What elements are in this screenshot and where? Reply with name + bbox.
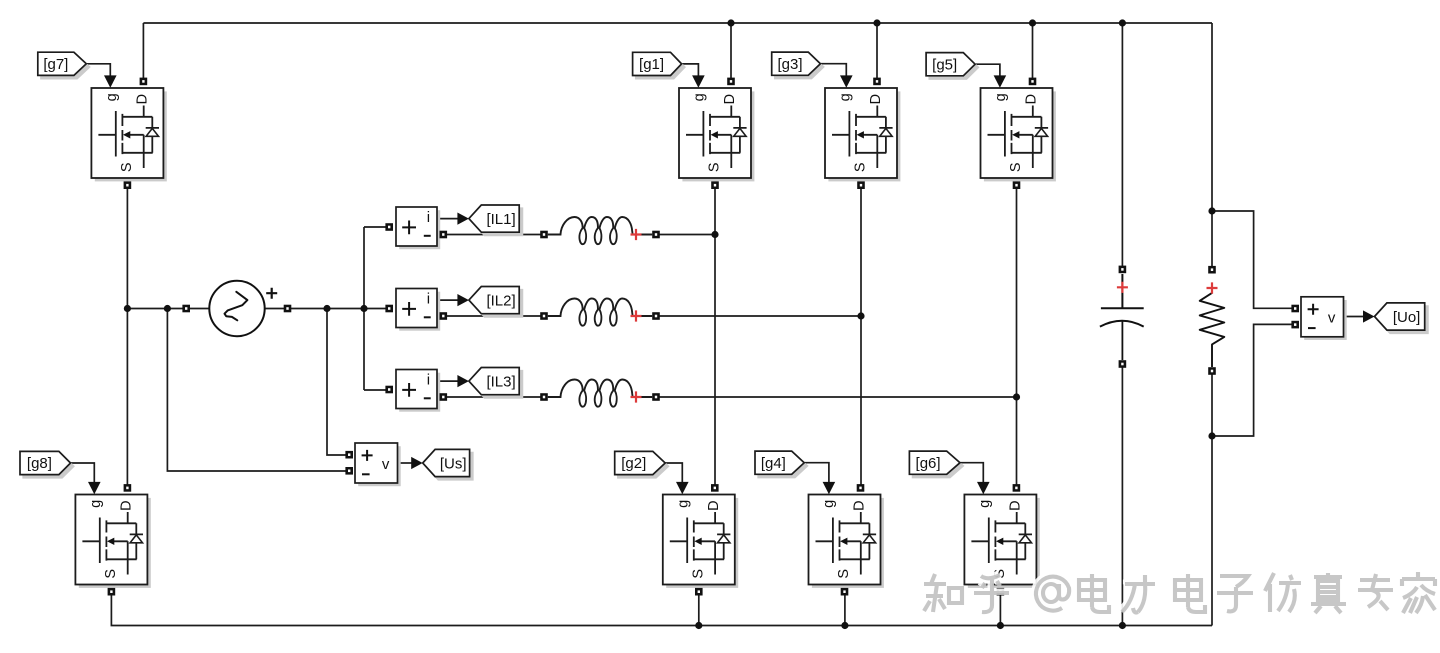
watermark glyph dian2 (1173, 572, 1205, 612)
From tag [g7] (38, 52, 90, 78)
Q4 (g4) source port S (841, 588, 849, 596)
watermark glyph zhuan (1356, 572, 1393, 610)
pin label - (424, 397, 431, 399)
node g4 source / bottom bus (841, 622, 848, 629)
gate wire g8 (71, 463, 95, 483)
node g2 source / bottom bus (695, 622, 702, 629)
Q5 (g5) source port S (1013, 181, 1021, 189)
svg-text:[g5]: [g5] (932, 56, 957, 73)
svg-text:S: S (690, 569, 706, 579)
IL2 + port (385, 305, 393, 313)
svg-text:[Us]: [Us] (440, 455, 467, 472)
svg-text:[g1]: [g1] (639, 56, 664, 73)
Q8 (g8) drain port D (124, 484, 132, 492)
pin label - (1308, 327, 1316, 329)
gate arrowhead g4 (823, 482, 836, 494)
wire resistor bottom feed (1211, 373, 1213, 626)
Q2 (g2) drain port D (711, 484, 719, 492)
svg-text:D: D (118, 500, 134, 510)
svg-text:[g3]: [g3] (777, 56, 802, 73)
MOSFET block Q1 (g1) (679, 88, 754, 181)
From tag [g3] (772, 52, 824, 78)
svg-text:[IL3]: [IL3] (486, 374, 515, 391)
MOSFET body arrow (857, 131, 864, 138)
gate wire g2 (665, 463, 682, 483)
wire top DC bus (143, 22, 1212, 24)
node g1 drain / top bus (727, 19, 734, 26)
gate wire g5 (975, 64, 1000, 76)
wire to Uo + input (1212, 211, 1293, 308)
From tag [g4] (755, 451, 807, 477)
node phase B (857, 312, 864, 319)
MOSFET symbol strokes (98, 106, 159, 169)
svg-text:D: D (868, 94, 884, 104)
watermark glyph dian (1077, 572, 1109, 612)
red polarity mark of L3 (631, 391, 642, 402)
IL3 - port (440, 393, 448, 401)
AC voltage source Vs (209, 281, 264, 336)
Uo - port (1291, 321, 1299, 329)
svg-text:g: g (977, 500, 993, 508)
L3 right port (652, 393, 660, 401)
MOSFET body arrow (694, 538, 701, 545)
pin label + (402, 383, 416, 397)
From tag [g5] (926, 53, 978, 79)
svg-text:v: v (1328, 310, 1336, 327)
watermark glyph li (1120, 573, 1155, 613)
arrowhead to IL3 tag (457, 375, 469, 387)
node Us+ branch (323, 305, 330, 312)
L1 right port (652, 231, 660, 239)
wire g2 source drop (698, 595, 700, 626)
MOSFET symbol strokes (816, 512, 877, 575)
gate arrowhead g6 (977, 482, 990, 494)
wire to Us - input (167, 309, 349, 472)
watermark glyph at (1034, 575, 1069, 611)
svg-text:S: S (1008, 162, 1024, 172)
MOSFET body arrow (1012, 131, 1019, 138)
IL1 - port (440, 231, 448, 239)
wire g6 source drop (999, 595, 1001, 626)
Voltage measurement block Us (355, 443, 401, 486)
MOSFET symbol strokes (971, 512, 1032, 575)
resistor bottom port (1208, 367, 1216, 375)
capacitor bottom port (1119, 360, 1127, 368)
AC source right port (284, 305, 292, 313)
wire g1 drain riser (730, 23, 732, 81)
node capacitor / top bus (1119, 19, 1126, 26)
svg-text:v: v (382, 456, 390, 473)
MOSFET block Q5 (g5) (981, 88, 1056, 181)
wire g5 drain riser (1032, 23, 1034, 81)
gate wire g4 (804, 463, 829, 483)
svg-text:S: S (707, 162, 723, 172)
svg-text:[IL2]: [IL2] (486, 293, 515, 310)
svg-text:g: g (88, 500, 104, 508)
wire g3 source to g4 drain (860, 188, 862, 485)
gate arrowhead g1 (692, 75, 705, 87)
capacitor top port (1119, 266, 1127, 274)
wire L2 to phase B node (656, 315, 861, 317)
MOSFET body arrow (996, 538, 1003, 545)
watermark glyph zhi (922, 572, 962, 612)
Q1 (g1) drain port D (727, 78, 735, 86)
svg-text:[g8]: [g8] (27, 455, 52, 472)
svg-text:D: D (1024, 94, 1040, 104)
L1 left port (540, 231, 548, 239)
Goto tag [Uo] (1375, 303, 1428, 333)
watermark glyph fang (1263, 571, 1301, 612)
MOSFET block Q4 (g4) (809, 495, 884, 588)
MOSFET symbol strokes (988, 106, 1049, 169)
IL3 + port (385, 386, 393, 394)
Goto tag [IL3] (469, 368, 523, 398)
node Us- branch (164, 305, 171, 312)
MOSFET symbol strokes (82, 512, 143, 575)
Q5 (g5) drain port D (1029, 78, 1037, 86)
wire AC source right lead (265, 308, 393, 310)
gate arrowhead g8 (88, 482, 101, 494)
Q4 (g4) drain port D (857, 484, 865, 492)
L2 left port (540, 312, 548, 320)
svg-text:[IL1]: [IL1] (486, 211, 515, 228)
wire phase trunk (363, 227, 365, 390)
svg-text:[Uo]: [Uo] (1393, 309, 1421, 326)
AC source + polarity label (266, 288, 277, 299)
wire to IL1 + input (364, 226, 392, 228)
body diode (863, 535, 875, 543)
Current measurement block IL1 (396, 207, 440, 249)
node g6 source / bottom bus (997, 622, 1004, 629)
pin label + (362, 450, 373, 461)
svg-text:i: i (427, 290, 430, 307)
Current measurement block IL3 (396, 370, 440, 412)
gate arrowhead g7 (104, 75, 117, 87)
wire L1 to phase A node (656, 234, 715, 236)
node resistor top / Uo+ (1208, 207, 1215, 214)
Uo + port (1291, 305, 1299, 313)
MOSFET block Q6 (g6) (964, 495, 1039, 588)
inductor L3 (548, 380, 652, 407)
gate arrowhead g5 (994, 75, 1007, 87)
Voltage measurement block Uo (1301, 297, 1347, 340)
wire to Us + input (327, 309, 349, 456)
MOSFET body arrow (840, 538, 847, 545)
AC source left port (182, 305, 190, 313)
wire capacitor bottom feed (1121, 367, 1123, 626)
wire bottom return bus (111, 595, 1212, 626)
MOSFET block Q8 (g8) (75, 495, 150, 588)
watermark glyph zhen (1309, 571, 1346, 613)
pin label + (1308, 304, 1319, 315)
From tag [g6] (909, 451, 963, 477)
gate wire g1 (682, 64, 699, 76)
arrowhead to IL1 tag (457, 213, 469, 225)
resistor top port (1208, 266, 1216, 274)
body diode (130, 535, 142, 543)
IL2 - port (440, 312, 448, 320)
svg-text:g: g (993, 93, 1009, 101)
watermark glyph jia (1400, 570, 1435, 613)
pin label + (402, 302, 416, 316)
svg-text:g: g (692, 93, 708, 101)
svg-text:g: g (821, 500, 837, 508)
wire to Uo - input (1212, 324, 1293, 436)
Current measurement block IL2 (396, 289, 440, 331)
Goto tag [Us] (423, 449, 473, 479)
signal wire i2 to IL2 tag (437, 299, 458, 301)
MOSFET body arrow (711, 131, 718, 138)
svg-text:[g2]: [g2] (621, 455, 646, 472)
IL1 + port (385, 223, 393, 231)
Goto tag [IL2] (469, 287, 523, 317)
Us + port (345, 451, 353, 459)
node AC left / half-bridge 4 (124, 305, 131, 312)
red polarity mark of L1 (631, 229, 642, 240)
svg-text:D: D (706, 500, 722, 510)
From tag [g1] (633, 52, 685, 78)
resistor R (load) (1200, 293, 1225, 367)
L3 left port (540, 393, 548, 401)
Q6 (g6) source port S (997, 588, 1005, 596)
wire L3 to phase C node (656, 396, 1017, 398)
signal wire to Uo tag (1344, 316, 1365, 318)
wire IL3 meas to inductor L3 (443, 396, 544, 398)
Q6 (g6) drain port D (1013, 484, 1021, 492)
From tag [g8] (20, 451, 74, 477)
wire resistor top feed (1211, 23, 1213, 266)
wire g3 drain riser (876, 23, 878, 81)
svg-text:g: g (675, 500, 691, 508)
signal wire i1 to IL1 tag (437, 218, 458, 220)
svg-text:i: i (427, 209, 430, 226)
wire g4 source drop (844, 595, 846, 626)
node phase A (711, 231, 718, 238)
MOSFET symbol strokes (686, 106, 747, 169)
red polarity mark of L2 (631, 310, 642, 321)
svg-text:S: S (836, 569, 852, 579)
svg-text:[g6]: [g6] (916, 455, 941, 472)
wire g7 source to g8 drain (126, 188, 128, 485)
svg-text:D: D (722, 94, 738, 104)
Q3 (g3) source port S (857, 181, 865, 189)
wire g1 source to g2 drain (714, 188, 716, 485)
Q7 (g7) source port S (124, 181, 132, 189)
signal wire to Us tag (398, 462, 413, 464)
svg-text:g: g (104, 93, 120, 101)
svg-text:g: g (838, 93, 854, 101)
arrowhead to IL2 tag (457, 294, 469, 306)
svg-text:S: S (103, 569, 119, 579)
L2 right port (652, 312, 660, 320)
pin label + (402, 221, 416, 235)
capacitor C (DC link) (1100, 274, 1144, 360)
red polarity mark of resistor (1207, 282, 1218, 293)
body diode (1019, 535, 1031, 543)
Q8 (g8) source port S (108, 588, 116, 596)
wire g5 source to g6 drain (1016, 188, 1018, 485)
MOSFET block Q2 (g2) (663, 495, 738, 588)
wire g7 drain riser (142, 23, 144, 81)
Us - port (345, 467, 353, 475)
wire capacitor top feed (1121, 23, 1123, 266)
pin label - (362, 473, 370, 475)
From tag [g2] (615, 451, 669, 477)
wire IL1 meas to inductor L1 (443, 234, 544, 236)
pin label - (424, 316, 431, 318)
wire IL2 meas to inductor L2 (443, 315, 544, 317)
gate wire g3 (820, 64, 846, 76)
node resistor bottom / Uo- (1208, 432, 1215, 439)
node g5 drain / top bus (1029, 19, 1036, 26)
svg-text:D: D (1007, 500, 1023, 510)
inductor L1 (548, 217, 652, 244)
svg-text:D: D (852, 500, 868, 510)
MOSFET body arrow (107, 538, 114, 545)
pin label - (424, 235, 431, 237)
svg-text:D: D (134, 94, 150, 104)
svg-text:[g4]: [g4] (761, 455, 786, 472)
body diode (146, 128, 158, 136)
MOSFET symbol strokes (832, 106, 893, 169)
svg-text:[g7]: [g7] (43, 56, 68, 73)
node phase C (1013, 393, 1020, 400)
node capacitor / bottom bus (1119, 622, 1126, 629)
gate arrowhead g2 (676, 482, 689, 494)
red polarity mark of capacitor (1117, 282, 1128, 293)
MOSFET symbol strokes (670, 512, 731, 575)
Q1 (g1) source port S (711, 181, 719, 189)
body diode (718, 535, 730, 543)
MOSFET body arrow (123, 131, 130, 138)
gate wire g7 (86, 64, 110, 76)
svg-text:S: S (853, 162, 869, 172)
svg-text:S: S (119, 162, 135, 172)
body diode (1035, 128, 1047, 136)
Q7 (g7) drain port D (140, 78, 148, 86)
body diode (734, 128, 746, 136)
body diode (880, 128, 892, 136)
Q3 (g3) drain port D (873, 78, 881, 86)
Q2 (g2) source port S (695, 588, 703, 596)
node phase trunk (360, 305, 367, 312)
signal wire i3 to IL3 tag (437, 380, 458, 382)
gate arrowhead g3 (840, 75, 853, 87)
svg-text:i: i (427, 371, 430, 388)
MOSFET block Q3 (g3) (825, 88, 900, 181)
MOSFET block Q7 (g7) (91, 88, 166, 181)
gate wire g6 (960, 463, 983, 483)
watermark glyph hu (972, 573, 1009, 612)
wire AC source left lead (127, 308, 210, 310)
inductor L2 (548, 299, 652, 326)
arrowhead to Uo tag (1363, 310, 1375, 322)
watermark glyph zi (1215, 574, 1253, 612)
Goto tag [IL1] (469, 205, 523, 235)
wire to IL3 + input (364, 389, 392, 391)
node g3 drain / top bus (873, 19, 880, 26)
arrowhead to Us tag (411, 457, 423, 469)
